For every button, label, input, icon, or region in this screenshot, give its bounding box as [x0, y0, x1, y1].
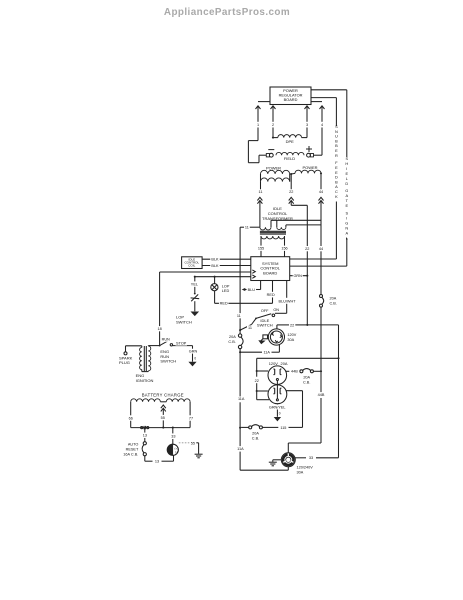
svg-text:C.B.: C.B.: [252, 437, 259, 441]
svg-text:BLK: BLK: [211, 258, 219, 262]
svg-text:GRN/YEL: GRN/YEL: [269, 405, 286, 409]
svg-text:BOARD: BOARD: [263, 270, 277, 275]
svg-text:BATTERY CHARGE: BATTERY CHARGE: [142, 392, 184, 397]
svg-text:AppliancePartsPros.com: AppliancePartsPros.com: [164, 7, 290, 18]
svg-text:RED: RED: [220, 302, 228, 306]
svg-text:RED: RED: [267, 293, 275, 297]
svg-text:LOP: LOP: [222, 284, 230, 288]
svg-text:TRANSFORMER: TRANSFORMER: [262, 216, 293, 221]
svg-text:11A: 11A: [237, 447, 244, 451]
svg-text:E: E: [345, 203, 348, 208]
svg-text:115: 115: [280, 426, 286, 430]
svg-text:11A: 11A: [263, 351, 270, 355]
svg-text:0: 0: [194, 356, 196, 360]
svg-text:SWITCH: SWITCH: [257, 322, 273, 327]
svg-text:11: 11: [237, 314, 241, 318]
svg-text:18: 18: [157, 327, 161, 331]
svg-text:11: 11: [259, 190, 263, 194]
svg-text:156: 156: [281, 247, 287, 251]
svg-text:30A: 30A: [287, 338, 294, 342]
svg-text:BOARD: BOARD: [284, 97, 298, 102]
svg-text:44B: 44B: [318, 393, 325, 397]
svg-text:1: 1: [257, 123, 259, 127]
svg-text:13: 13: [143, 434, 147, 438]
svg-text:BLU: BLU: [248, 288, 256, 292]
svg-text:C.B.: C.B.: [330, 302, 337, 306]
svg-text:44: 44: [319, 190, 323, 194]
svg-text:POWER: POWER: [302, 165, 317, 170]
svg-text:GRN: GRN: [189, 350, 198, 354]
svg-text:DPE: DPE: [286, 139, 295, 144]
svg-text:13: 13: [155, 460, 159, 464]
svg-text:22: 22: [289, 190, 293, 194]
svg-text:C.B.: C.B.: [228, 340, 235, 344]
svg-text:YEL: YEL: [191, 283, 198, 287]
svg-text:SWITCH: SWITCH: [176, 319, 192, 324]
svg-text:22: 22: [305, 247, 309, 251]
svg-text:0: 0: [279, 411, 281, 415]
svg-text:RESET: RESET: [126, 447, 139, 451]
svg-text:120V: 120V: [287, 333, 296, 337]
svg-text:IGNITION: IGNITION: [136, 378, 154, 383]
svg-text:20A: 20A: [252, 432, 259, 436]
svg-text:OFF: OFF: [261, 309, 269, 313]
svg-text:77: 77: [189, 416, 193, 420]
svg-text:22: 22: [255, 379, 259, 383]
svg-text:16A C.B.: 16A C.B.: [123, 452, 138, 456]
svg-text:K: K: [335, 194, 338, 199]
svg-text:D: D: [345, 181, 348, 186]
svg-text:4: 4: [321, 123, 323, 127]
svg-text:POWER: POWER: [266, 165, 281, 170]
svg-text:C.B.: C.B.: [303, 381, 310, 385]
svg-text:22: 22: [290, 323, 294, 327]
svg-text:20A: 20A: [281, 361, 288, 366]
svg-text:11: 11: [248, 326, 252, 330]
svg-text:55: 55: [191, 441, 195, 445]
svg-text:33: 33: [309, 456, 313, 460]
svg-text:(-): (-): [175, 450, 178, 454]
svg-text:ON: ON: [273, 308, 279, 312]
svg-text:11A: 11A: [238, 397, 245, 401]
svg-text:66: 66: [129, 416, 133, 420]
svg-text:3: 3: [306, 123, 308, 127]
svg-text:20A: 20A: [229, 335, 236, 339]
svg-text:SWITCH: SWITCH: [160, 359, 176, 364]
svg-text:BLK: BLK: [211, 264, 219, 268]
svg-text:STOP: STOP: [176, 341, 187, 345]
svg-text:L: L: [346, 235, 349, 240]
svg-text:PLUG: PLUG: [119, 360, 130, 365]
svg-text:FIELD: FIELD: [284, 156, 295, 161]
svg-text:LED: LED: [222, 289, 230, 293]
svg-text:44B: 44B: [291, 370, 298, 374]
svg-text:55: 55: [161, 416, 165, 420]
svg-text:R: R: [335, 153, 338, 158]
svg-text:33: 33: [171, 434, 175, 438]
svg-text:GRN: GRN: [293, 274, 302, 278]
svg-text:155: 155: [258, 247, 264, 251]
svg-text:44: 44: [319, 247, 323, 251]
svg-text:BLU/WHT: BLU/WHT: [278, 299, 296, 303]
svg-text:11: 11: [245, 226, 249, 230]
svg-text:20A: 20A: [330, 296, 337, 300]
svg-text:30A: 30A: [297, 471, 304, 475]
svg-text:120/240V: 120/240V: [297, 466, 314, 470]
svg-text:2: 2: [272, 123, 274, 127]
svg-text:COIL: COIL: [188, 263, 195, 267]
svg-text:RUN: RUN: [162, 338, 170, 342]
svg-text:20A: 20A: [303, 376, 310, 380]
svg-text:AUTO: AUTO: [128, 442, 139, 446]
